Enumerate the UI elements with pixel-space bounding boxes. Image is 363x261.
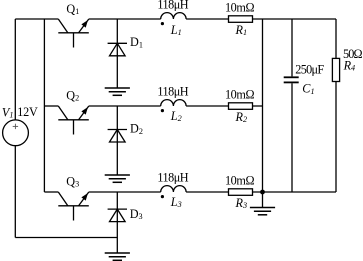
svg-text:250μF: 250μF xyxy=(295,63,324,77)
svg-text:10mΩ: 10mΩ xyxy=(225,1,255,15)
svg-text:118μH: 118μH xyxy=(157,0,188,11)
svg-text:118μH: 118μH xyxy=(157,84,188,98)
svg-text:10mΩ: 10mΩ xyxy=(225,174,255,188)
svg-text:12V: 12V xyxy=(17,105,38,119)
svg-text:118μH: 118μH xyxy=(157,170,188,184)
svg-text:10mΩ: 10mΩ xyxy=(225,88,255,102)
